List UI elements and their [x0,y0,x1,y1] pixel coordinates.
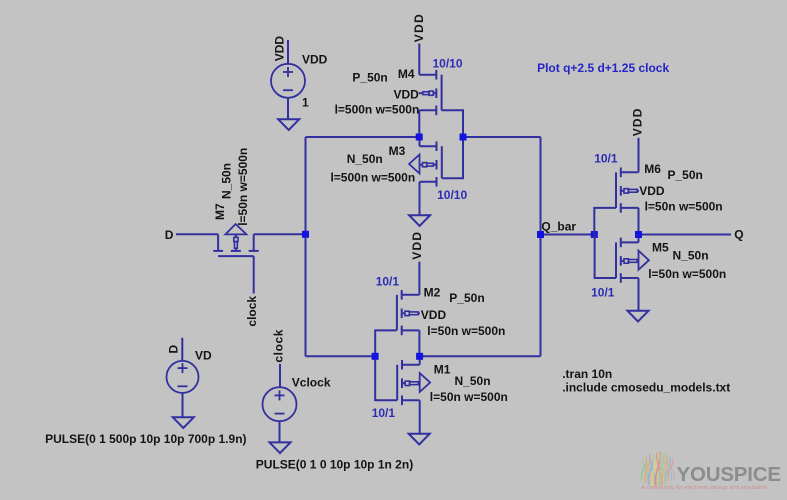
svg-text:YOUSPICE: YOUSPICE [677,463,781,486]
wire M6 gate to Q_bar junction [594,208,616,235]
ground below M5 [628,311,649,322]
svg-text:Plot q+2.5 d+1.25 clock: Plot q+2.5 d+1.25 clock [537,61,669,75]
svg-text:Q: Q [734,227,743,241]
wire M5 drain up to Q junction [638,235,640,243]
wire VDD stub to M2 drain [418,262,420,295]
junction top row left [416,134,423,141]
svg-text:N_50n: N_50n [347,152,383,166]
svg-text:1: 1 [302,96,309,110]
junction Q_bar column [537,231,544,238]
svg-text:M1: M1 [434,363,451,377]
svg-text:10/10: 10/10 [433,57,463,71]
wire M3 gate to node [442,137,463,178]
wire VDD stub to M4 drain [418,44,420,75]
svg-text:l=50n w=500n: l=50n w=500n [236,148,250,226]
logo YOUSPICE watermark [641,452,674,486]
svg-text:l=500n w=500n: l=500n w=500n [330,170,415,184]
wire M2 source down to Q_bar row [418,330,420,356]
svg-text:VDD: VDD [630,107,644,136]
svg-text:10/1: 10/1 [591,286,615,300]
voltage source VDD (1V supply) [271,64,305,98]
svg-text:l=50n w=500n: l=50n w=500n [648,267,726,281]
wire M3 drain up to node A row [419,137,421,146]
junction M7 drain node A [302,231,309,238]
wire M1 source down to ground [419,400,421,433]
transistor M6 PMOS P_50n [616,168,639,213]
transistor M5 NMOS N_50n [616,238,649,283]
wire top row right segment [463,136,541,138]
wire Q output [639,234,732,236]
transistor M3 NMOS N_50n [409,141,442,186]
wire M4 source down to node A row [418,110,420,137]
wire M2 gate to node A [375,330,397,356]
ground below M1 [409,434,430,445]
svg-text:10/1: 10/1 [376,274,400,288]
svg-text:VDD: VDD [302,52,328,66]
svg-text:M6: M6 [644,162,661,176]
svg-text:P_50n: P_50n [668,168,703,182]
svg-text:l=500n w=500n: l=500n w=500n [335,102,420,116]
svg-text:Vclock: Vclock [292,376,331,390]
svg-text:10/1: 10/1 [372,406,396,420]
svg-text:M2: M2 [424,286,441,300]
wire VD top stub [181,338,183,361]
svg-text:P_50n: P_50n [449,291,484,305]
svg-text:M3: M3 [389,144,406,158]
svg-text:clock: clock [272,329,286,363]
voltage source Vclock [263,387,297,421]
svg-text:PULSE(0 1 500p 10p 10p 700p 1.: PULSE(0 1 500p 10p 10p 700p 1.9n) [45,432,246,446]
svg-text:N_50n: N_50n [220,163,234,199]
svg-text:l=50n w=500n: l=50n w=500n [645,199,723,213]
wire VDD source bottom stub [287,98,289,120]
transistor M1 NMOS N_50n [397,360,430,405]
junction M6 M5 gate column [591,231,598,238]
svg-text:PULSE(0 1 0 10p 10p 1n 2n): PULSE(0 1 0 10p 10p 1n 2n) [256,457,413,471]
wire M5 source down to ground [638,278,640,311]
svg-text:VDD: VDD [639,184,665,198]
wire M3 source down to ground [419,182,421,215]
svg-text:l=50n w=500n: l=50n w=500n [427,324,505,338]
svg-text:clock: clock [245,296,259,327]
wire M7 drain to node A junction [254,233,306,235]
svg-text:VDD: VDD [393,87,419,101]
svg-text:VDD: VDD [410,231,424,260]
svg-text:VDD: VDD [421,308,447,322]
transistor M7 NMOS N_50n rotated [176,224,259,256]
svg-text:A community for electronic des: A community for electronic design and si… [641,485,767,491]
svg-text:D: D [167,345,181,354]
wire M1 drain up to Q_bar row [419,356,421,364]
wire VDD stub to M6 drain [638,138,640,173]
transistor M2 PMOS P_50n [397,290,420,335]
wire right column Q_bar [540,137,542,356]
svg-text:M5: M5 [652,241,669,255]
wire M6 source down to Q junction [638,208,640,235]
wire bottom row left segment [306,355,376,357]
svg-text:Q_bar: Q_bar [541,219,576,233]
svg-text:l=50n w=500n: l=50n w=500n [430,390,508,404]
wire left column node A [305,137,307,356]
ground below VD [173,417,194,428]
svg-text:VDD: VDD [272,36,286,62]
voltage source VD [167,361,199,393]
junction top row right [460,134,467,141]
wire M4 gate to node [442,110,463,137]
svg-text:.include cmosedu_models.txt: .include cmosedu_models.txt [562,380,730,394]
svg-text:M7: M7 [213,203,227,220]
junction bottom row left [372,353,379,360]
wire Q_bar to M6 M5 gates [541,234,595,236]
ground below M3 [409,215,430,226]
svg-text:10/1: 10/1 [594,151,618,165]
svg-text:VDD: VDD [412,13,426,43]
wire VDD source top stub [287,40,289,64]
wire M5 gate to Q_bar junction [595,235,616,279]
svg-text:P_50n: P_50n [352,71,387,85]
junction bottom row right [416,353,423,360]
wire M7 gate down to clock label [253,256,255,293]
wire M1 gate to node A [375,356,397,400]
svg-text:.tran 10n: .tran 10n [562,367,612,381]
svg-text:N_50n: N_50n [673,249,709,263]
wire Vclock top stub [279,364,281,387]
wire bottom row right segment [420,355,541,357]
svg-text:M4: M4 [398,67,415,81]
junction M6 M5 drains [635,231,642,238]
svg-text:D: D [165,228,174,242]
svg-text:VD: VD [195,349,212,363]
wire VD bottom stub [182,393,184,417]
wire top row left segment [306,136,420,138]
svg-text:10/10: 10/10 [437,188,467,202]
transistor M4 PMOS P_50n [419,70,442,115]
wire Vclock bottom stub [279,421,281,442]
svg-text:N_50n: N_50n [455,374,491,388]
ground below Vclock [270,442,291,453]
ground below VDD source [278,119,299,130]
